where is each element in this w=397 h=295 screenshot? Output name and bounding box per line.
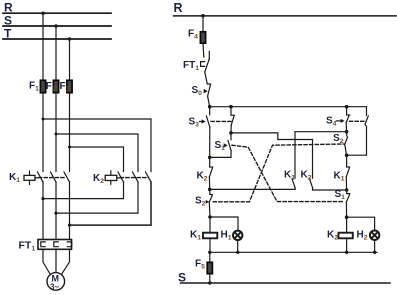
wire control line S bbox=[181, 282, 391, 284]
wire phase R bus bbox=[3, 12, 111, 14]
svg-text:S2: S2 bbox=[195, 196, 206, 208]
junction bus / K2 coil bbox=[345, 251, 348, 254]
limit switch S2 lower contact (left branch, NC) bbox=[209, 189, 211, 194]
left stub contact (linked to S3) bbox=[230, 107, 232, 115]
wire S0 to node A bbox=[208, 96, 210, 107]
junction on R bus bbox=[41, 12, 44, 15]
interlock K2 NC contact (left branch) bbox=[209, 157, 211, 166]
node B2 junction bbox=[345, 153, 349, 157]
interlock K1 NC contact (right branch) bbox=[346, 155, 348, 167]
dashed link S3 to stub contact bbox=[211, 120, 231, 122]
limit switch S2 upper contact (right branch) bbox=[346, 132, 348, 136]
wire S2 lower to lamp tee bbox=[208, 202, 211, 217]
svg-text:K1: K1 bbox=[284, 170, 295, 182]
dashed link S1 path (upper-left to lower-right) bbox=[232, 145, 344, 201]
contactor K1 operator bbox=[29, 171, 31, 185]
wire control line R bbox=[174, 15, 397, 17]
thermal relay FT1 heater element 1 bbox=[41, 242, 45, 247]
fuse F3 bbox=[67, 80, 72, 92]
junction on S bus bbox=[54, 24, 57, 27]
wire FT1 to motor phase 2 bbox=[55, 249, 57, 272]
wire R to fuse F4 bbox=[202, 16, 204, 32]
svg-text:S2: S2 bbox=[333, 133, 344, 145]
wire S4 to node T2 bbox=[345, 123, 348, 132]
node C2 junction bbox=[345, 188, 349, 192]
wire crossover R to K2 pole 3 bbox=[43, 119, 151, 172]
wire H1 to bus bbox=[237, 240, 239, 252]
svg-text:K2: K2 bbox=[197, 171, 208, 183]
junction T1 bbox=[229, 131, 233, 135]
wire tee to lamp H1 bbox=[210, 217, 238, 231]
wire node A top rail bbox=[210, 106, 367, 108]
svg-text:K2: K2 bbox=[327, 230, 338, 242]
svg-text:H1: H1 bbox=[221, 230, 232, 242]
wire S1 upper to node B1 bbox=[210, 151, 231, 158]
wire S2 upper to node B2 bbox=[345, 144, 347, 155]
fuse F5 bbox=[207, 262, 212, 273]
svg-text:K2: K2 bbox=[301, 170, 312, 182]
fuse F2 bbox=[53, 80, 58, 92]
pushbutton S4 (start rev, NO) bbox=[346, 107, 348, 115]
junction top rail / left stub bbox=[229, 105, 233, 109]
wire FT1 to motor phase 3 bbox=[62, 249, 70, 273]
contactor K1 mechanical link (dashed) bbox=[39, 177, 67, 179]
svg-text:K1: K1 bbox=[334, 171, 345, 183]
wire tee to lamp H2 bbox=[347, 217, 375, 230]
wire bus to fuse F5 bbox=[209, 252, 211, 262]
limit switch S1 upper contact bbox=[230, 133, 232, 140]
node T2 junction bbox=[345, 130, 349, 134]
wire fuse F3 to contactor K1 pole 3 bbox=[69, 93, 71, 172]
wire K1 pole 1 down to FT1 bbox=[42, 182, 44, 240]
thermal relay FT1 NC contact bbox=[208, 52, 210, 59]
node C1 junction bbox=[208, 188, 212, 192]
junction top rail / S4 branch bbox=[345, 105, 349, 109]
limit switch S1 lower contact (right branch, NC) bbox=[346, 190, 348, 193]
wire S drop to fuse F2 bbox=[55, 26, 57, 80]
contactor K2 pole 3 contact bbox=[146, 172, 152, 182]
junction K1/K2 output 3 bbox=[68, 224, 71, 227]
svg-text:S1: S1 bbox=[215, 140, 226, 152]
lamp tee junction right bbox=[345, 215, 349, 219]
svg-text:H2: H2 bbox=[357, 230, 368, 242]
wire K1 pole 3 down to FT1 bbox=[69, 182, 71, 240]
fuse F4 bbox=[200, 32, 205, 43]
svg-text:K1: K1 bbox=[9, 172, 20, 184]
motor M 3~ bbox=[47, 273, 65, 291]
contactor K2 mechanical link (dashed) bbox=[120, 177, 148, 179]
coil K2 bbox=[346, 217, 348, 232]
junction S tee to K2 bbox=[55, 133, 58, 136]
svg-text:F5: F5 bbox=[195, 259, 205, 271]
node A junction bbox=[208, 105, 212, 109]
wire K1 pole 2 down to FT1 bbox=[55, 182, 57, 240]
contactor K2 pole 2 contact bbox=[133, 172, 139, 182]
contactor K1 pole 3 contact bbox=[64, 172, 70, 182]
wire crossover S to K2 pole 2 bbox=[56, 134, 138, 172]
junction R tee to K2 bbox=[42, 118, 45, 121]
wire C1 to K1 aux bbox=[210, 188, 295, 190]
wire FT1 to S0 bbox=[205, 72, 207, 84]
lamp H2 bbox=[370, 231, 379, 240]
svg-text:3~: 3~ bbox=[50, 283, 59, 292]
wire T drop to fuse F3 bbox=[69, 39, 71, 80]
svg-text:FT1: FT1 bbox=[19, 240, 36, 253]
svg-text:S4: S4 bbox=[326, 116, 337, 128]
right stub contact (linked to S4) bbox=[366, 107, 368, 116]
pushbutton S3 (start fwd, NO) bbox=[209, 107, 211, 115]
junction bus / H1 bbox=[236, 251, 239, 254]
svg-text:K2: K2 bbox=[93, 173, 104, 185]
holding contact K1 aux bbox=[295, 131, 347, 133]
junction on T bus bbox=[68, 37, 71, 40]
thermal relay FT1 box bbox=[38, 240, 72, 250]
svg-text:FT1: FT1 bbox=[183, 60, 199, 72]
dashed link S2 path (lower-left to upper-right) bbox=[213, 144, 344, 202]
wire fuse F2 to contactor K1 pole 2 bbox=[55, 93, 57, 172]
contactor K1 pole 2 contact bbox=[51, 172, 57, 182]
junction bus / K1 coil bbox=[208, 251, 211, 254]
wire crossover T to K2 pole 1 bbox=[70, 147, 124, 172]
wire bottom bus bbox=[210, 251, 377, 253]
svg-text:K1: K1 bbox=[190, 230, 201, 242]
wire F5 to S line bbox=[209, 274, 211, 283]
wire K2 pole 1 return bbox=[43, 182, 124, 199]
fuse F1 bbox=[40, 80, 45, 92]
node B1 junction bbox=[208, 156, 212, 160]
dashed link S4 to right stub bbox=[350, 120, 365, 122]
wire S1 lower to lamp tee bbox=[345, 202, 347, 217]
svg-text:F4: F4 bbox=[188, 29, 198, 41]
svg-text:S3: S3 bbox=[189, 117, 200, 129]
svg-text:S1: S1 bbox=[335, 189, 346, 201]
lamp tee junction left bbox=[208, 215, 212, 219]
pushbutton S0 (stop, NC) bbox=[207, 83, 210, 85]
wire K2 pole 2 return bbox=[56, 182, 138, 213]
contactor K1 pole 1 contact bbox=[38, 172, 44, 182]
junction K1/K2 output 2 bbox=[54, 212, 57, 215]
wire FT1 to motor phase 1 bbox=[43, 249, 50, 273]
junction on control R line bbox=[201, 14, 205, 18]
junction K1/K2 output 1 bbox=[41, 197, 44, 200]
contactor K2 pole 1 contact bbox=[118, 172, 124, 182]
junction bus / H2 bbox=[373, 251, 376, 254]
wire K2 pole 3 return bbox=[70, 182, 152, 225]
wire fuse F1 to contactor K1 pole 1 bbox=[42, 93, 44, 172]
svg-text:F1: F1 bbox=[29, 81, 39, 93]
thermal relay FT1 heater element 2 bbox=[54, 242, 58, 247]
wire R drop to fuse F1 bbox=[42, 13, 44, 80]
lamp H1 bbox=[233, 231, 242, 240]
svg-text:R: R bbox=[174, 1, 183, 15]
coil K1 bbox=[209, 217, 211, 233]
wire H2 to bus bbox=[374, 240, 376, 253]
holding contact K2 aux bbox=[231, 133, 313, 140]
thermal relay FT1 heater element 3 bbox=[67, 242, 71, 247]
junction T tee to K2 bbox=[68, 146, 71, 149]
wire S3 to node B1 bbox=[209, 127, 211, 157]
wire phase T bus bbox=[3, 38, 111, 40]
wire phase S bus bbox=[3, 25, 111, 27]
wire F4 to FT1 contact bbox=[202, 44, 205, 58]
svg-text:S0: S0 bbox=[192, 85, 203, 97]
contactor K2 operator bbox=[110, 171, 112, 185]
